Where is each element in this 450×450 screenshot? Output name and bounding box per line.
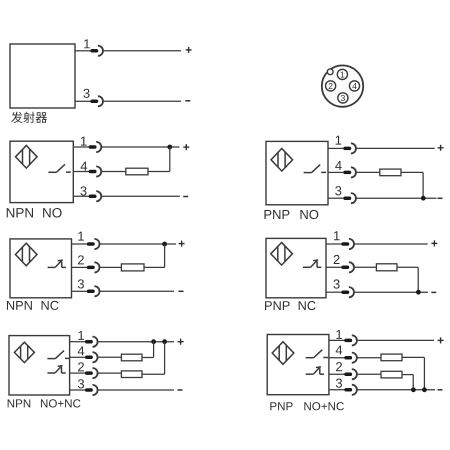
connector pin NPN NC 3: [89, 290, 93, 294]
wire: [98, 341, 174, 343]
NC contact switch NPN NC: [48, 260, 66, 268]
wire: [423, 357, 425, 389]
NO contact switch PNP NO+NC: [306, 350, 328, 358]
plus terminal: [183, 144, 189, 150]
connector socket PNP NO 1: [351, 143, 356, 153]
connector socket NPN NO 3: [96, 191, 101, 201]
connector socket PNP NC 3: [349, 287, 354, 297]
connector pin NPN NO+NC 2: [87, 371, 91, 375]
wire: [329, 339, 345, 341]
wire: [70, 389, 86, 391]
wire: [402, 356, 424, 358]
NPN NO sensor box U1: [10, 141, 73, 202]
caption NC: [299, 301, 316, 310]
plus terminal: [178, 339, 184, 345]
connector keyway notch: [327, 69, 333, 75]
pin number label 3: [78, 379, 84, 388]
wire: [356, 171, 380, 173]
junction NPN NO +: [167, 145, 172, 150]
wire: [75, 50, 91, 52]
resistor load PNP NO+NC RL2: [381, 371, 402, 378]
connector socket NPN NO+NC 2: [93, 368, 98, 378]
connector pin PNP NO+NC 4: [346, 356, 350, 360]
pin number label 2: [334, 255, 340, 264]
NPN NC sensor box U3: [10, 239, 72, 298]
junction NPN NO+NC +a: [151, 339, 156, 344]
caption NPN: [7, 301, 32, 310]
wire: [354, 243, 427, 245]
wire: [144, 266, 165, 268]
wire: [354, 291, 428, 293]
wire: [153, 342, 155, 358]
pin number label 1: [78, 232, 84, 241]
connector pin NPN NC 2: [89, 266, 93, 270]
minus terminal: [438, 389, 443, 391]
connector socket PNP NC 1: [349, 239, 354, 249]
sensor symbol diamond NPN NO+NC: [14, 342, 34, 362]
wire: [102, 146, 180, 148]
minus terminal: [431, 291, 436, 293]
NC contact switch PNP NO+NC: [306, 366, 324, 374]
plus terminal: [438, 145, 444, 151]
pin number label 1: [336, 136, 342, 145]
wire: [326, 243, 342, 245]
pin number label 3: [78, 279, 84, 288]
resistor load NPN NO+NC RL1: [121, 354, 142, 361]
connector pin PNP NO+NC 2: [346, 372, 350, 376]
pin number label 1: [84, 39, 90, 48]
NO contact switch PNP NO: [304, 165, 326, 173]
wire: [100, 266, 122, 268]
connector pin NPN NO+NC 3: [87, 388, 91, 392]
wire: [357, 357, 381, 359]
connector socket PNP NO 4: [351, 167, 356, 177]
connector face outer circle: [322, 65, 363, 106]
caption PNP: [265, 301, 290, 310]
pin number label 3: [336, 379, 342, 388]
caption PNP: [264, 210, 289, 219]
connector socket NPN NC 2: [94, 262, 99, 272]
connector socket PNP NO+NC 1: [352, 335, 357, 345]
wire: [417, 267, 419, 292]
NO contact switch NPN NO+NC: [47, 351, 69, 359]
connector socket NPN NO+NC 1: [93, 337, 98, 347]
connector pin NPN NO+NC 1: [87, 340, 91, 344]
connector pin PNP NO 3: [345, 196, 349, 200]
caption PNP: [270, 402, 292, 410]
pin number label 4: [81, 162, 88, 171]
wire: [164, 244, 166, 267]
resistor load NPN NO RL: [126, 168, 148, 175]
minus terminal: [185, 100, 190, 102]
caption NO: [300, 210, 318, 219]
wire: [102, 195, 180, 197]
wire: [70, 372, 86, 374]
plus terminal: [438, 337, 444, 343]
connector pin transmitter 1: [92, 49, 96, 53]
wire: [169, 147, 171, 172]
wire: [401, 171, 423, 173]
NO contact switch NPN NO: [48, 164, 70, 172]
connector pin PNP NO+NC 1: [346, 339, 350, 343]
wire: [70, 356, 86, 358]
pin number label 4: [336, 345, 343, 354]
connector pin transmitter 3: [92, 100, 96, 104]
caption NO: [43, 208, 61, 218]
junction PNP NO -: [421, 196, 426, 201]
wire: [412, 375, 414, 390]
resistor load NPN NC RL: [121, 264, 144, 271]
connector pin 1 circle: [337, 69, 347, 79]
wire: [328, 197, 344, 199]
wire: [357, 389, 435, 391]
caption NO+NC: [41, 399, 81, 407]
caption NPN: [7, 208, 33, 217]
pin number label 1: [336, 330, 342, 339]
PNP NC sensor box U4: [266, 238, 326, 297]
minus terminal: [179, 290, 184, 292]
connector socket transmitter 3: [98, 96, 103, 106]
junction NPN NO+NC +b: [162, 339, 167, 344]
wire: [354, 266, 376, 268]
wire: [142, 357, 154, 359]
pin number label 2: [78, 362, 84, 371]
wire: [356, 197, 436, 199]
minus terminal: [438, 197, 443, 199]
PNP NO sensor box U2: [266, 141, 328, 204]
connector socket NPN NO 1: [96, 142, 101, 152]
sensor symbol diamond PNP NO+NC: [272, 342, 294, 365]
wire: [422, 172, 424, 198]
pin number label 3: [83, 89, 89, 98]
caption NO+NC: [304, 402, 344, 410]
pin number label 3: [335, 186, 341, 195]
wire: [326, 266, 342, 268]
wire: [98, 372, 122, 374]
wire: [75, 100, 91, 102]
wire: [357, 373, 381, 375]
connector pin NPN NO 3: [90, 195, 94, 199]
connector socket transmitter 1: [98, 46, 103, 56]
wire: [402, 374, 413, 376]
connector socket NPN NO+NC 4: [93, 352, 98, 362]
connector pin NPN NO 4: [90, 170, 94, 174]
wire: [98, 356, 122, 358]
minus terminal: [178, 389, 183, 391]
pin number label 4: [335, 161, 342, 170]
connector socket PNP NO+NC 2: [352, 369, 357, 379]
wire: [329, 357, 345, 359]
connector pin PNP NC 2: [343, 266, 347, 270]
pin number label 3: [333, 279, 339, 288]
pin number label 3: [80, 186, 86, 195]
transmitter box 发射器: [10, 44, 75, 108]
wire: [73, 195, 89, 197]
pin number label 1: [78, 331, 84, 340]
junction PNP NO+NC -b: [422, 387, 427, 392]
junction PNP NO+NC -a: [411, 387, 416, 392]
plus terminal: [179, 241, 185, 247]
label 发射器: [11, 112, 47, 123]
NC contact switch PNP NC: [303, 260, 321, 268]
caption NC: [42, 301, 59, 310]
resistor load PNP NO RL: [380, 169, 401, 176]
pin number label 2: [78, 255, 84, 264]
connector pin PNP NO 1: [345, 147, 349, 151]
caption NPN: [8, 399, 31, 407]
connector pin NPN NO+NC 4: [87, 356, 91, 360]
wire: [100, 290, 174, 292]
wire: [326, 291, 342, 293]
wire: [164, 342, 166, 375]
NPN NO+NC sensor box U5: [9, 336, 70, 395]
resistor load NPN NO+NC RL2: [121, 371, 142, 378]
sensor symbol diamond PNP NO: [271, 149, 293, 172]
connector socket PNP NC 2: [349, 262, 354, 272]
connector pin PNP NC 3: [343, 290, 347, 294]
junction NPN NC +: [162, 242, 167, 247]
wire: [103, 100, 181, 102]
NC contact switch NPN NO+NC: [47, 365, 65, 373]
pin number label 2: [336, 362, 342, 371]
wire: [103, 50, 181, 52]
pin number label 4: [78, 346, 85, 355]
connector pin PNP NO+NC 3: [346, 388, 350, 392]
wire: [73, 146, 89, 148]
connector socket NPN NC 1: [94, 239, 99, 249]
pin number label 1: [334, 231, 340, 240]
sensor symbol diamond PNP NC: [271, 243, 293, 266]
wire: [70, 341, 86, 343]
wire: [100, 243, 176, 245]
wire: [72, 290, 88, 292]
connector pin 4 circle: [349, 81, 359, 91]
resistor load PNP NC RL: [376, 264, 397, 271]
connector socket PNP NO+NC 3: [352, 385, 357, 395]
connector pin 3 circle: [338, 93, 348, 103]
connector socket NPN NC 3: [94, 286, 99, 296]
wire: [397, 266, 418, 268]
connector pin NPN NC 1: [89, 242, 93, 246]
wire: [102, 171, 126, 173]
connector pin PNP NO 4: [345, 171, 349, 175]
connector socket PNP NO 3: [351, 193, 356, 203]
wire: [328, 171, 344, 173]
minus terminal: [183, 196, 188, 198]
plus terminal: [431, 240, 437, 246]
connector pin NPN NO 1: [90, 145, 94, 149]
wire: [73, 171, 89, 173]
connector pin 2 circle: [326, 81, 336, 91]
plus terminal: [186, 47, 192, 53]
wire: [329, 373, 345, 375]
wire: [329, 389, 345, 391]
wire: [357, 339, 434, 341]
wire: [72, 243, 88, 245]
wire: [328, 147, 344, 149]
connector socket NPN NO 4: [96, 166, 101, 176]
junction PNP NC -: [416, 290, 421, 295]
sensor symbol diamond NPN NC: [15, 243, 37, 266]
connector socket PNP NO+NC 4: [352, 353, 357, 363]
connector socket NPN NO+NC 3: [93, 385, 98, 395]
wire: [148, 171, 170, 173]
connector pin PNP NC 1: [343, 242, 347, 246]
wire: [98, 389, 174, 391]
wire: [72, 266, 88, 268]
sensor symbol diamond NPN NO: [16, 146, 38, 169]
pin number label 1: [81, 137, 87, 146]
resistor load PNP NO+NC RL1: [381, 354, 402, 361]
PNP NO+NC sensor box U6: [267, 335, 329, 395]
wire: [142, 373, 165, 375]
wire: [356, 147, 435, 149]
